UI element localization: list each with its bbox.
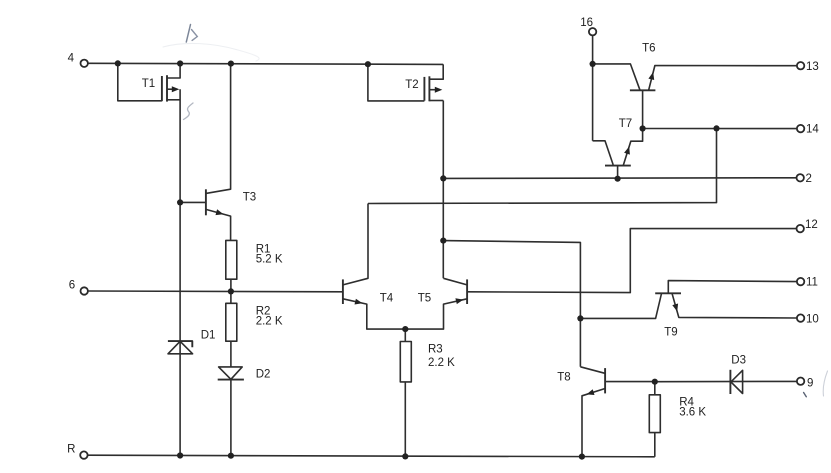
svg-text:T7: T7 xyxy=(619,118,632,130)
svg-text:12: 12 xyxy=(805,219,818,231)
svg-text:10: 10 xyxy=(806,313,819,325)
svg-text:13: 13 xyxy=(806,61,819,73)
svg-text:D3: D3 xyxy=(731,355,746,367)
svg-text:R: R xyxy=(67,444,75,456)
svg-text:2.2 K: 2.2 K xyxy=(256,316,283,328)
svg-text:16: 16 xyxy=(580,17,593,29)
svg-text:T1: T1 xyxy=(142,78,155,90)
svg-text:11: 11 xyxy=(806,277,818,289)
svg-text:T2: T2 xyxy=(405,79,418,91)
svg-text:9: 9 xyxy=(807,377,813,389)
svg-text:T5: T5 xyxy=(418,292,431,304)
svg-text:T9: T9 xyxy=(664,327,677,339)
svg-text:T8: T8 xyxy=(557,372,570,384)
svg-text:3.6 K: 3.6 K xyxy=(679,407,706,419)
svg-text:D2: D2 xyxy=(256,368,271,380)
svg-text:4: 4 xyxy=(68,53,75,65)
svg-text:2: 2 xyxy=(806,173,812,185)
svg-text:T3: T3 xyxy=(243,192,256,204)
svg-text:R3: R3 xyxy=(428,344,443,356)
svg-text:D1: D1 xyxy=(201,329,216,341)
svg-text:6: 6 xyxy=(69,280,75,292)
svg-text:2.2 K: 2.2 K xyxy=(428,357,455,369)
svg-text:T4: T4 xyxy=(380,292,394,304)
svg-text:14: 14 xyxy=(806,124,819,136)
svg-text:5.2 K: 5.2 K xyxy=(256,254,283,266)
svg-text:T6: T6 xyxy=(642,43,655,55)
